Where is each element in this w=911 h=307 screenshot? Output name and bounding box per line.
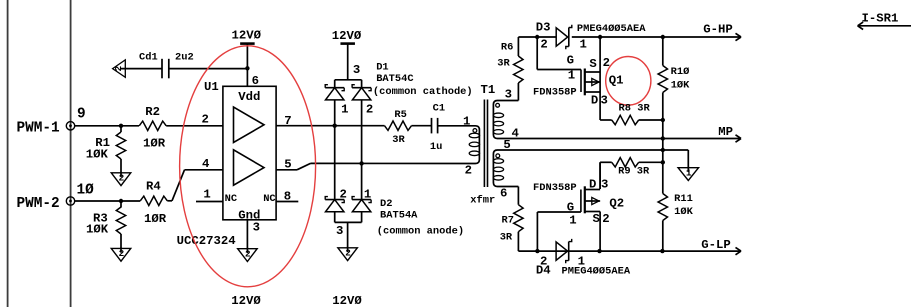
svg-text:1ØK: 1ØK (86, 223, 109, 237)
svg-text:2: 2 (602, 212, 609, 226)
svg-text:12VØ: 12VØ (231, 294, 261, 307)
svg-text:12VØ: 12VØ (232, 29, 262, 43)
svg-text:NC: NC (263, 193, 275, 205)
svg-text:1: 1 (341, 102, 348, 116)
svg-text:3: 3 (601, 94, 608, 108)
svg-text:R7: R7 (502, 215, 514, 227)
svg-text:3R: 3R (392, 134, 405, 146)
svg-text:2: 2 (540, 38, 547, 52)
svg-text:R2: R2 (145, 105, 160, 119)
svg-text:1ØR: 1ØR (144, 212, 167, 226)
svg-text:R9 3R: R9 3R (618, 166, 650, 178)
svg-text:6: 6 (500, 187, 507, 201)
svg-text:2: 2 (245, 248, 251, 259)
svg-text:2: 2 (465, 164, 472, 178)
svg-text:1u: 1u (430, 141, 442, 153)
svg-text:2: 2 (119, 248, 125, 259)
svg-text:R11: R11 (674, 193, 693, 205)
svg-text:1: 1 (568, 69, 575, 83)
svg-text:G-HP: G-HP (703, 23, 733, 37)
svg-text:G-LP: G-LP (701, 238, 731, 252)
svg-text:R6: R6 (501, 42, 513, 54)
svg-text:1: 1 (569, 214, 576, 228)
svg-text:R5: R5 (394, 109, 406, 121)
svg-text:S: S (593, 212, 600, 226)
svg-text:1ØR: 1ØR (143, 136, 166, 150)
svg-text:1Ø: 1Ø (77, 183, 95, 199)
svg-text:MP: MP (718, 125, 733, 139)
svg-text:D2: D2 (380, 198, 392, 210)
svg-text:2: 2 (366, 102, 373, 116)
svg-text:1: 1 (686, 167, 692, 178)
svg-text:R1Ø: R1Ø (671, 66, 690, 78)
svg-text:UCC27324: UCC27324 (177, 234, 237, 248)
svg-text:3: 3 (336, 224, 343, 238)
svg-text:D3: D3 (536, 21, 551, 35)
svg-text:1ØK: 1ØK (671, 79, 690, 91)
svg-text:FDN358P: FDN358P (533, 87, 577, 99)
svg-text:1: 1 (203, 188, 210, 202)
svg-text:PWM-1: PWM-1 (17, 121, 61, 137)
svg-text:R8 3R: R8 3R (619, 103, 651, 115)
svg-text:FDN358P: FDN358P (533, 182, 577, 194)
svg-text:9: 9 (77, 107, 86, 123)
svg-text:(common anode): (common anode) (377, 226, 464, 238)
svg-text:2: 2 (345, 247, 351, 258)
svg-text:3R: 3R (500, 232, 513, 244)
svg-text:D: D (589, 177, 596, 191)
svg-text:Q2: Q2 (609, 197, 624, 211)
svg-text:G: G (567, 54, 574, 68)
svg-text:C1: C1 (433, 103, 445, 115)
svg-text:BAT54A: BAT54A (380, 210, 418, 222)
svg-text:D: D (591, 94, 598, 108)
svg-text:2: 2 (202, 113, 209, 127)
svg-text:1: 1 (580, 38, 587, 52)
svg-text:1: 1 (463, 115, 470, 129)
svg-text:1ØK: 1ØK (86, 147, 109, 161)
svg-text:6: 6 (252, 74, 259, 88)
svg-text:U1: U1 (204, 80, 219, 94)
svg-text:1: 1 (364, 188, 371, 202)
svg-text:PMEG4ØØ5AEA: PMEG4ØØ5AEA (562, 266, 631, 278)
svg-text:12VØ: 12VØ (332, 29, 362, 43)
svg-text:2u2: 2u2 (175, 52, 194, 64)
svg-text:R4: R4 (146, 180, 161, 194)
svg-text:Q1: Q1 (609, 73, 624, 87)
svg-text:NC: NC (225, 193, 237, 205)
svg-text:G: G (567, 201, 574, 215)
svg-text:I-SR1: I-SR1 (862, 12, 899, 26)
svg-text:3: 3 (253, 221, 260, 235)
svg-text:BAT54C: BAT54C (376, 73, 413, 85)
svg-text:5: 5 (503, 138, 510, 152)
svg-text:3: 3 (353, 63, 360, 77)
svg-text:D1: D1 (376, 62, 388, 74)
svg-text:xfmr: xfmr (470, 195, 495, 207)
svg-text:S: S (589, 57, 596, 71)
svg-text:Cd1: Cd1 (139, 52, 158, 64)
svg-text:Vdd: Vdd (238, 90, 260, 104)
svg-text:4: 4 (512, 127, 520, 141)
svg-text:2: 2 (119, 172, 125, 183)
svg-text:1ØK: 1ØK (674, 206, 693, 218)
svg-text:3: 3 (505, 87, 512, 101)
svg-text:(common cathode): (common cathode) (373, 86, 473, 98)
svg-text:3R: 3R (497, 58, 510, 70)
svg-text:4: 4 (202, 157, 210, 171)
svg-text:12VØ: 12VØ (332, 294, 362, 307)
svg-text:PMEG4ØØ5AEA: PMEG4ØØ5AEA (577, 23, 646, 35)
svg-text:D4: D4 (536, 264, 551, 278)
svg-text:T1: T1 (481, 83, 496, 97)
svg-text:3: 3 (601, 177, 608, 191)
svg-text:PWM-2: PWM-2 (17, 196, 60, 212)
svg-text:2: 2 (340, 188, 347, 202)
